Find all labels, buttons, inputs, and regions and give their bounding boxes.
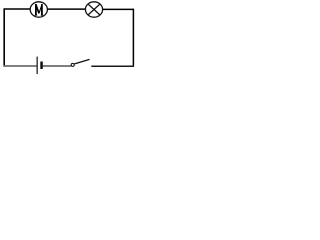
wire bottom-right (switch to corner) [91, 65, 134, 67]
wire bottom-left (corner to battery) [4, 65, 37, 67]
lamp cross line 2 [88, 4, 100, 15]
switch pivot circle [71, 63, 74, 66]
wire bottom middle (battery to switch) [43, 65, 72, 67]
battery short thick plate (negative) [40, 62, 43, 70]
switch lever (open) [75, 59, 90, 64]
wire left vertical [3, 8, 5, 66]
wire right vertical [132, 9, 134, 67]
wire top middle (motor to lamp) [47, 8, 86, 10]
battery long plate (positive) [36, 57, 38, 74]
motor U1 circle [30, 2, 47, 17]
motor letter M [35, 4, 44, 15]
lamp cross line 1 [88, 4, 100, 15]
wire top-right horizontal (lamp to corner) [102, 8, 134, 10]
wire top-left horizontal [4, 8, 31, 10]
lamp L1 circle [85, 2, 102, 17]
